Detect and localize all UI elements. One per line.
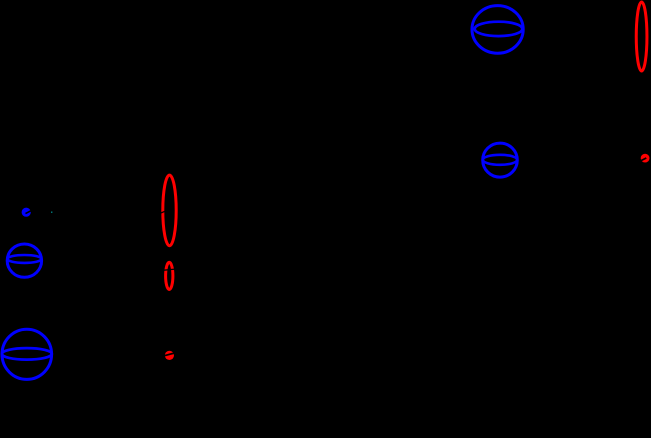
sphere S3 equator (7, 255, 41, 263)
wire over C3 (black crossing stroke) (163, 269, 177, 270)
sphere S2 equator (483, 155, 517, 165)
point P3 (red dot, lower middle left) (165, 351, 174, 360)
sphere S4 (lower left, large blue circle) (2, 329, 52, 379)
sphere S4 equator (2, 348, 52, 360)
circle C1 (red vertical ellipse, top right edge) (636, 2, 647, 71)
point P2 (blue dot, left) (22, 208, 31, 217)
sphere S1 (top right, blue circle) (472, 6, 523, 54)
circle C3 (small red vertical ellipse, middle left) (166, 262, 173, 289)
sphere S1 equator (475, 22, 523, 36)
wire over P3 (black crossing stroke) (164, 353, 175, 356)
wire over P2 (black crossing stroke) (26, 210, 33, 213)
wire over P1 (black crossing stroke) (640, 158, 647, 161)
sphere S3 (left middle, blue circle) (7, 244, 41, 277)
sphere S2 (right middle, blue circle) (483, 143, 518, 177)
circle C2 (large red vertical ellipse, middle left) (163, 175, 176, 246)
node mark (tiny teal speck) (51, 212, 52, 213)
point P1 (red dot, right edge) (641, 154, 650, 163)
wire over C2 (small black nick, left side) (161, 211, 165, 213)
